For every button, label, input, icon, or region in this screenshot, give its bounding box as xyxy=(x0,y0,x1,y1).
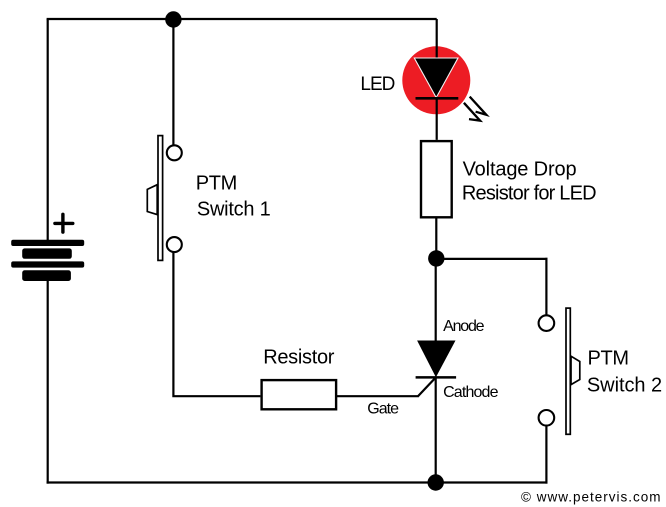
LED light arrow 1 xyxy=(470,97,487,115)
svg-text:Voltage Drop: Voltage Drop xyxy=(463,158,577,180)
battery BT1 xyxy=(11,240,84,281)
label Cathode xyxy=(443,384,498,401)
LED D1 cathode bar xyxy=(416,97,459,100)
wire: gate diagonal lead into SCR xyxy=(418,378,436,397)
PTM switch 1 SW1 body bar xyxy=(158,136,163,261)
wire: battery positive to top-left corner xyxy=(47,19,49,241)
wire: bottom rail left segment (corner to node C) xyxy=(47,481,436,483)
PTM switch 1 button actuator xyxy=(147,185,157,215)
SCR Q1 triangle xyxy=(417,341,455,378)
wire: resistor R1 to gate diagonal xyxy=(336,395,419,397)
svg-text:Resistor for LED: Resistor for LED xyxy=(462,183,596,205)
node B junction dot xyxy=(428,250,444,266)
svg-text:Gate: Gate xyxy=(367,400,399,417)
wire: top rail left segment (corner to node A) xyxy=(47,18,174,20)
label Anode xyxy=(443,318,485,335)
wire: switch 1 bottom terminal down and right to resistor R1 xyxy=(173,253,260,397)
PTM switch 1 bottom terminal circle xyxy=(167,237,182,252)
PTM switch 1 top terminal circle xyxy=(167,145,182,160)
label PTM Switch 2 xyxy=(587,348,662,397)
node C junction dot xyxy=(428,474,444,490)
svg-text:PTM: PTM xyxy=(588,348,629,370)
PTM switch 2 top terminal circle xyxy=(539,315,555,331)
svg-text:Switch 2: Switch 2 xyxy=(587,375,662,397)
wire: SCR Q1 cathode down to node C xyxy=(435,377,437,482)
SCR Q1 anode wire from node B xyxy=(435,259,437,341)
svg-text:PTM: PTM xyxy=(196,172,237,194)
svg-text:Switch 1: Switch 1 xyxy=(197,198,271,220)
svg-text:Cathode: Cathode xyxy=(443,384,498,401)
PTM switch 2 SW2 body bar xyxy=(566,308,570,434)
label Voltage Drop Resistor for LED xyxy=(462,158,596,204)
wire: node B right to switch 2 branch corner xyxy=(436,258,547,260)
label Gate xyxy=(367,400,399,417)
wire: switch 2 bottom terminal down to bottom rail corner xyxy=(545,426,547,484)
node A junction dot xyxy=(165,11,181,27)
label Resistor xyxy=(263,347,335,369)
PTM switch 2 button actuator xyxy=(571,356,580,384)
LED light arrow 2 xyxy=(464,103,480,121)
svg-text:Resistor: Resistor xyxy=(263,347,335,369)
svg-text:Anode: Anode xyxy=(443,318,485,335)
label LED xyxy=(360,74,394,95)
LED D1 red body xyxy=(402,46,470,114)
label PTM Switch 1 xyxy=(196,172,271,220)
wire: node A down to PTM switch 1 top terminal xyxy=(172,20,174,146)
wire: battery negative down to bottom rail xyxy=(47,281,49,484)
label copyright watermark xyxy=(521,490,661,505)
wire: bottom rail right segment (node C to switch 2 corner) xyxy=(436,481,548,483)
wire: resistor R2 bottom to node B xyxy=(435,219,437,259)
resistor R1 (gate resistor, horizontal) xyxy=(262,380,337,409)
PTM switch 2 bottom terminal circle xyxy=(539,410,555,426)
SCR Q1 cathode bar xyxy=(416,376,457,379)
resistor R2 (voltage drop resistor, vertical) xyxy=(421,141,452,217)
wire: top rail right segment (node A to LED corner) xyxy=(173,18,436,20)
svg-text:© www.petervis.com: © www.petervis.com xyxy=(521,490,661,505)
battery plus sign xyxy=(55,214,73,232)
wire: LED anode drop from top rail through LED body to resistor R2 xyxy=(436,19,438,140)
svg-text:LED: LED xyxy=(360,74,394,95)
LED D1 diode triangle xyxy=(414,58,458,98)
wire: branch corner down to switch 2 top terminal xyxy=(545,258,547,315)
